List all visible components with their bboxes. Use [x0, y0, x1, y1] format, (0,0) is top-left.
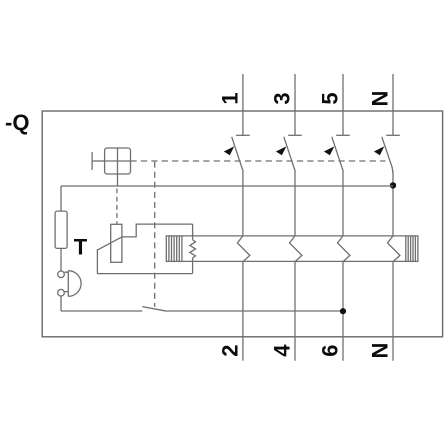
- secondary winding riser bottom: [192, 258, 194, 274]
- pole 2 arrow: [276, 146, 286, 155]
- pole N upper terminal wire: [392, 74, 394, 135]
- svg-text:-Q: -Q: [5, 110, 29, 135]
- test wire horizontal: [61, 185, 393, 187]
- CT band top line: [182, 235, 406, 237]
- secondary winding riser top: [192, 224, 194, 240]
- pole N fixed contact tick: [386, 134, 400, 136]
- pole 3 arrow: [324, 146, 334, 155]
- trip coil: [111, 224, 122, 262]
- svg-text:3: 3: [270, 92, 295, 104]
- pole 2 CT crossing jog: [290, 236, 302, 262]
- release square bottom lead: [117, 174, 119, 186]
- test circuit bottom wire left: [61, 310, 142, 312]
- pole 3 lower conductor bottom segment: [342, 261, 344, 360]
- pole N CT crossing jog: [388, 236, 400, 262]
- coil circuit step wire: [122, 224, 193, 237]
- junction dot conductor 6: [340, 308, 346, 314]
- test resistor lead bottom: [60, 248, 62, 271]
- release square lead end bar: [91, 152, 93, 170]
- CT right winding block: [406, 236, 418, 262]
- coil circuit bottom rail: [97, 273, 192, 275]
- CT band bottom line: [182, 260, 406, 262]
- dashed link square to trip coil: [116, 189, 118, 225]
- test button contact bottom: [58, 289, 65, 296]
- pole 1 arrow: [224, 146, 234, 155]
- svg-text:1: 1: [217, 92, 242, 104]
- test circuit bottom wire right: [167, 310, 343, 312]
- release square cross horizontal: [105, 160, 131, 162]
- pole 2 lower conductor upper segment: [294, 170, 296, 236]
- pole 3 lower conductor upper segment: [342, 170, 344, 236]
- pole N arrow: [374, 146, 384, 155]
- test button contact top: [58, 271, 65, 278]
- pole N lower conductor bottom segment: [392, 261, 394, 360]
- pole N switch blade: [382, 137, 393, 173]
- secondary winding zigzag: [190, 240, 196, 258]
- pole 2 lower conductor bottom segment: [294, 261, 296, 360]
- pole 3 upper terminal wire: [342, 74, 344, 135]
- pole 3 CT crossing jog: [338, 236, 350, 262]
- residual current release square: [105, 148, 131, 174]
- CT left block hatching: [169, 236, 179, 262]
- svg-text:4: 4: [270, 344, 295, 357]
- pole 2 switch blade: [284, 137, 295, 170]
- dashed link to test switch: [154, 162, 156, 307]
- release square left lead: [92, 160, 105, 162]
- pole 2 upper terminal wire: [294, 74, 296, 135]
- svg-text:5: 5: [318, 92, 343, 104]
- svg-text:N: N: [368, 91, 393, 107]
- pole 1 lower conductor bottom segment: [242, 261, 244, 360]
- coil circuit left riser: [96, 250, 99, 274]
- svg-text:T: T: [74, 234, 88, 259]
- test switch blade: [142, 307, 167, 312]
- test button bar: [67, 271, 69, 297]
- pole 1 switch blade: [232, 137, 243, 170]
- pole 2 fixed contact tick: [288, 134, 302, 136]
- junction dot N test wire: [390, 182, 396, 188]
- pole 1 upper terminal wire: [242, 74, 244, 135]
- pole 1 lower conductor upper segment: [242, 170, 244, 236]
- test resistor lead top: [60, 186, 62, 211]
- CT right block hatching: [408, 236, 415, 262]
- pole 3 switch blade: [332, 137, 343, 170]
- pole N lower conductor upper segment: [392, 171, 394, 236]
- trip coil diagonal: [98, 237, 122, 250]
- mechanical linkage dashed line: [131, 160, 386, 162]
- svg-text:6: 6: [318, 344, 343, 356]
- CT left winding block: [166, 236, 182, 262]
- pole 1 fixed contact tick: [236, 134, 250, 136]
- svg-text:2: 2: [217, 344, 242, 356]
- test circuit bottom lead: [60, 296, 62, 311]
- pole 1 CT crossing jog: [237, 236, 249, 262]
- enclosure box: [42, 111, 442, 337]
- test button bridge ticks: [64, 272, 68, 291]
- test button actuator arc: [68, 271, 81, 297]
- test resistor: [55, 211, 67, 248]
- pole 3 fixed contact tick: [336, 134, 350, 136]
- release square cross vertical: [117, 148, 119, 174]
- svg-text:N: N: [368, 343, 393, 359]
